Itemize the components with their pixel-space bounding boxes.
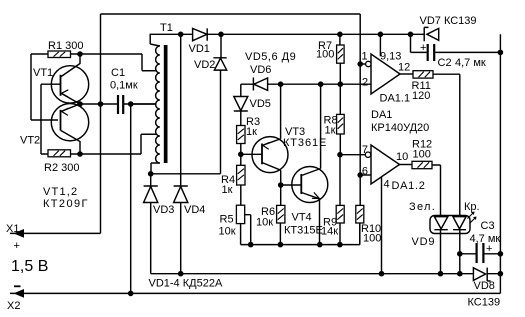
svg-text:4,7 мк: 4,7 мк xyxy=(455,57,486,69)
svg-text:+: + xyxy=(420,42,426,54)
svg-text:12: 12 xyxy=(398,62,410,74)
svg-text:1,5 В: 1,5 В xyxy=(11,258,48,275)
svg-text:VD2: VD2 xyxy=(194,59,215,71)
svg-text:+: + xyxy=(486,243,492,255)
svg-text:КТ315Е: КТ315Е xyxy=(284,225,323,237)
svg-text:4,7 мк: 4,7 мк xyxy=(470,233,501,245)
svg-text:1к: 1к xyxy=(246,126,257,138)
svg-text:VT1: VT1 xyxy=(33,67,53,79)
svg-text:Кр.: Кр. xyxy=(464,201,480,213)
svg-text:120: 120 xyxy=(412,90,430,102)
svg-text:КТ209Г: КТ209Г xyxy=(43,198,89,210)
svg-text:VD7 КС139: VD7 КС139 xyxy=(420,15,477,27)
svg-text:VD6: VD6 xyxy=(250,64,271,76)
svg-text:VD5,6 Д9: VD5,6 Д9 xyxy=(245,51,296,63)
svg-text:VT2: VT2 xyxy=(20,135,40,147)
svg-text:1: 1 xyxy=(362,51,368,63)
svg-text:100: 100 xyxy=(363,233,381,245)
svg-text:VD8: VD8 xyxy=(474,280,495,292)
svg-text:DA1: DA1 xyxy=(371,109,392,121)
svg-text:КТ361Е: КТ361Е xyxy=(283,137,327,149)
svg-text:R5: R5 xyxy=(220,214,234,226)
svg-text:VT1,2: VT1,2 xyxy=(43,186,78,198)
svg-text:4: 4 xyxy=(384,179,390,191)
svg-text:Зел.: Зел. xyxy=(409,201,436,213)
svg-text:100: 100 xyxy=(316,49,334,61)
svg-text:КР140УД20: КР140УД20 xyxy=(371,122,429,134)
svg-text:R1 300: R1 300 xyxy=(48,40,83,52)
svg-text:1к: 1к xyxy=(325,125,336,137)
svg-text:C1: C1 xyxy=(111,67,125,79)
svg-text:10: 10 xyxy=(396,151,408,163)
svg-text:7: 7 xyxy=(362,144,368,156)
svg-text:R2 300: R2 300 xyxy=(44,162,79,174)
svg-text:6: 6 xyxy=(362,166,368,178)
svg-text:+: + xyxy=(14,240,20,252)
svg-text:T1: T1 xyxy=(160,22,173,34)
svg-text:DA1.2: DA1.2 xyxy=(392,180,426,192)
svg-text:X1: X1 xyxy=(6,223,19,235)
svg-text:VD1-4 КД522А: VD1-4 КД522А xyxy=(149,278,223,290)
svg-text:VD9: VD9 xyxy=(412,236,436,248)
svg-text:10к: 10к xyxy=(219,226,236,238)
svg-text:10к: 10к xyxy=(256,216,273,228)
svg-text:VD5: VD5 xyxy=(250,98,271,110)
svg-text:КС139: КС139 xyxy=(468,297,501,309)
svg-text:VD1: VD1 xyxy=(189,43,210,55)
svg-text:X2: X2 xyxy=(7,300,20,312)
svg-text:VD4: VD4 xyxy=(184,204,205,216)
svg-text:2: 2 xyxy=(362,77,368,89)
svg-text:0,1мк: 0,1мк xyxy=(110,80,138,92)
svg-text:VD3: VD3 xyxy=(153,204,174,216)
svg-text:VT4: VT4 xyxy=(292,212,312,224)
svg-text:14к: 14к xyxy=(321,226,338,238)
svg-text:DA1.1: DA1.1 xyxy=(380,93,411,105)
svg-text:100: 100 xyxy=(413,149,431,161)
svg-text:C2: C2 xyxy=(438,57,452,69)
svg-text:C3: C3 xyxy=(481,220,495,232)
svg-text:1к: 1к xyxy=(222,184,233,196)
